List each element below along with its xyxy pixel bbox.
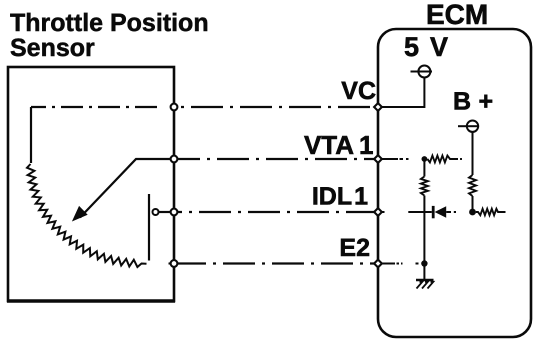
wire E2 inner stub: [169, 263, 172, 265]
node IDL1 ECM: [374, 208, 382, 216]
wire VTA1 node to junction: [381, 158, 408, 160]
idle contact open circle: [153, 209, 159, 215]
wire 5V to VC node: [381, 78, 424, 108]
wire VC inner dash-dot: [31, 106, 174, 108]
svg-text:+: +: [479, 88, 494, 116]
svg-text:Sensor: Sensor: [10, 34, 95, 62]
svg-text:VTA1: VTA1: [304, 130, 374, 160]
wire E2 between boxes: [174, 262, 378, 264]
svg-text:ECM: ECM: [426, 0, 488, 30]
wire R2 down through IDL1 row to E2 junction: [423, 196, 425, 264]
wire IDL1 node stub: [381, 211, 385, 213]
svg-text:B: B: [453, 88, 471, 116]
resistor R3 (vertical): [469, 175, 476, 196]
B+ supply terminal: [458, 121, 478, 132]
svg-text:E2: E2: [339, 234, 370, 262]
resistor R1 (VTA1 horizontal): [427, 156, 462, 163]
idle contact vertical line: [148, 194, 150, 261]
node VC ECM: [374, 103, 382, 111]
svg-text:VC: VC: [341, 77, 376, 105]
ECM box: [378, 29, 531, 337]
junction E2 dot: [421, 260, 427, 266]
node VTA1 ECM: [374, 155, 382, 163]
resistor R4 (horizontal): [476, 209, 506, 215]
node VTA1 sensor: [171, 156, 178, 163]
node VC sensor: [171, 104, 178, 111]
5V supply terminal: [411, 66, 433, 78]
wire E2 node to junction: [381, 263, 418, 265]
resistor R2 (vertical): [421, 177, 428, 196]
label 5 V: [404, 32, 448, 62]
wire IDL1 to diode: [408, 211, 432, 213]
wire VTA1 dot to R2: [423, 159, 425, 177]
ground symbol: [416, 280, 434, 289]
junction B+ dot: [469, 209, 476, 216]
wire E2 junction to ground: [423, 264, 425, 281]
wire B+ terminal down to R3: [472, 132, 474, 175]
wire VC inner vertical drop: [30, 107, 32, 163]
svg-text:5: 5: [404, 32, 419, 62]
svg-text:V: V: [430, 32, 448, 62]
wire VTA1 between boxes: [174, 158, 378, 160]
sensor box: [7, 67, 175, 301]
wire IDL inner stub: [159, 211, 174, 213]
title: Throttle Position Sensor: [10, 9, 209, 62]
wire VC between boxes: [174, 106, 378, 108]
wire IDL1 between boxes: [174, 211, 378, 213]
node E2 sensor: [171, 260, 178, 267]
node IDL1 sensor: [171, 209, 178, 216]
svg-text:Throttle Position: Throttle Position: [10, 9, 209, 37]
junction VTA1 dot: [422, 156, 428, 162]
wiper arm wire (VTA1 inner): [80, 159, 174, 218]
svg-text:IDL1: IDL1: [312, 183, 368, 211]
label B+: [453, 88, 493, 116]
wiper arrowhead: [74, 207, 87, 220]
diode D1: [433, 206, 456, 218]
wire R3 to junction: [472, 196, 474, 212]
potentiometer track (arc resistor): [27, 164, 147, 267]
node E2 ECM: [374, 260, 382, 268]
